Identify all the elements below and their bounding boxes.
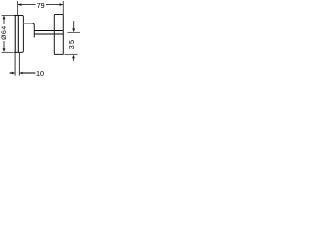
svg-text:79: 79 xyxy=(37,1,45,10)
svg-text:35: 35 xyxy=(67,39,76,50)
svg-text:Ø64: Ø64 xyxy=(1,25,8,40)
svg-text:10: 10 xyxy=(36,69,44,78)
